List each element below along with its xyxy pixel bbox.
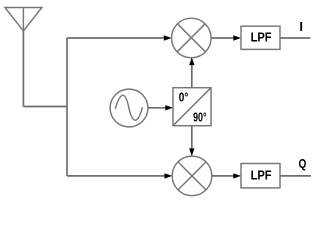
- mixer U1 (top): [172, 18, 212, 58]
- svg-text:LPF: LPF: [251, 29, 272, 44]
- wire phase splitter to bottom mixer LO port: [191, 126, 193, 150]
- arrowhead into top mixer LO port: [189, 57, 194, 65]
- svg-text:Q: Q: [299, 156, 307, 171]
- antenna ANT1: [5, 8, 42, 31]
- arrowhead into top LPF: [233, 35, 241, 40]
- svg-text:LPF: LPF: [251, 167, 272, 182]
- wire antenna feed (mast down): [22, 31, 24, 107]
- wire bus to top mixer: [67, 37, 165, 39]
- wire top LPF to I output: [280, 37, 311, 39]
- wire oscillator to phase splitter: [148, 107, 166, 109]
- filter LPF2 (bottom): [241, 164, 280, 188]
- wire top mixer to top LPF: [211, 37, 234, 39]
- arrowhead into phase splitter input: [165, 105, 173, 110]
- wire bottom LPF to Q output: [280, 175, 311, 177]
- oscillator OSC1 (local oscillator): [110, 89, 148, 127]
- arrowhead into top mixer RF port: [164, 35, 172, 40]
- wire splitter bus (vertical): [66, 38, 68, 176]
- arrowhead into bottom mixer RF port: [165, 173, 173, 178]
- wire bus to bottom mixer: [67, 175, 165, 177]
- svg-text:90°: 90°: [193, 111, 206, 125]
- phase splitter U3 (0/90 degree): [173, 88, 211, 126]
- wire bottom mixer to bottom LPF: [212, 175, 234, 177]
- wire antenna to bus (horizontal): [23, 106, 67, 108]
- arrowhead into bottom mixer LO port: [189, 148, 194, 156]
- svg-text:0°: 0°: [179, 91, 189, 105]
- wire phase splitter to top mixer LO port: [191, 64, 193, 88]
- svg-text:I: I: [299, 19, 303, 34]
- mixer U2 (bottom): [172, 156, 212, 196]
- filter LPF1 (top): [241, 26, 280, 49]
- arrowhead into bottom LPF: [233, 173, 241, 178]
